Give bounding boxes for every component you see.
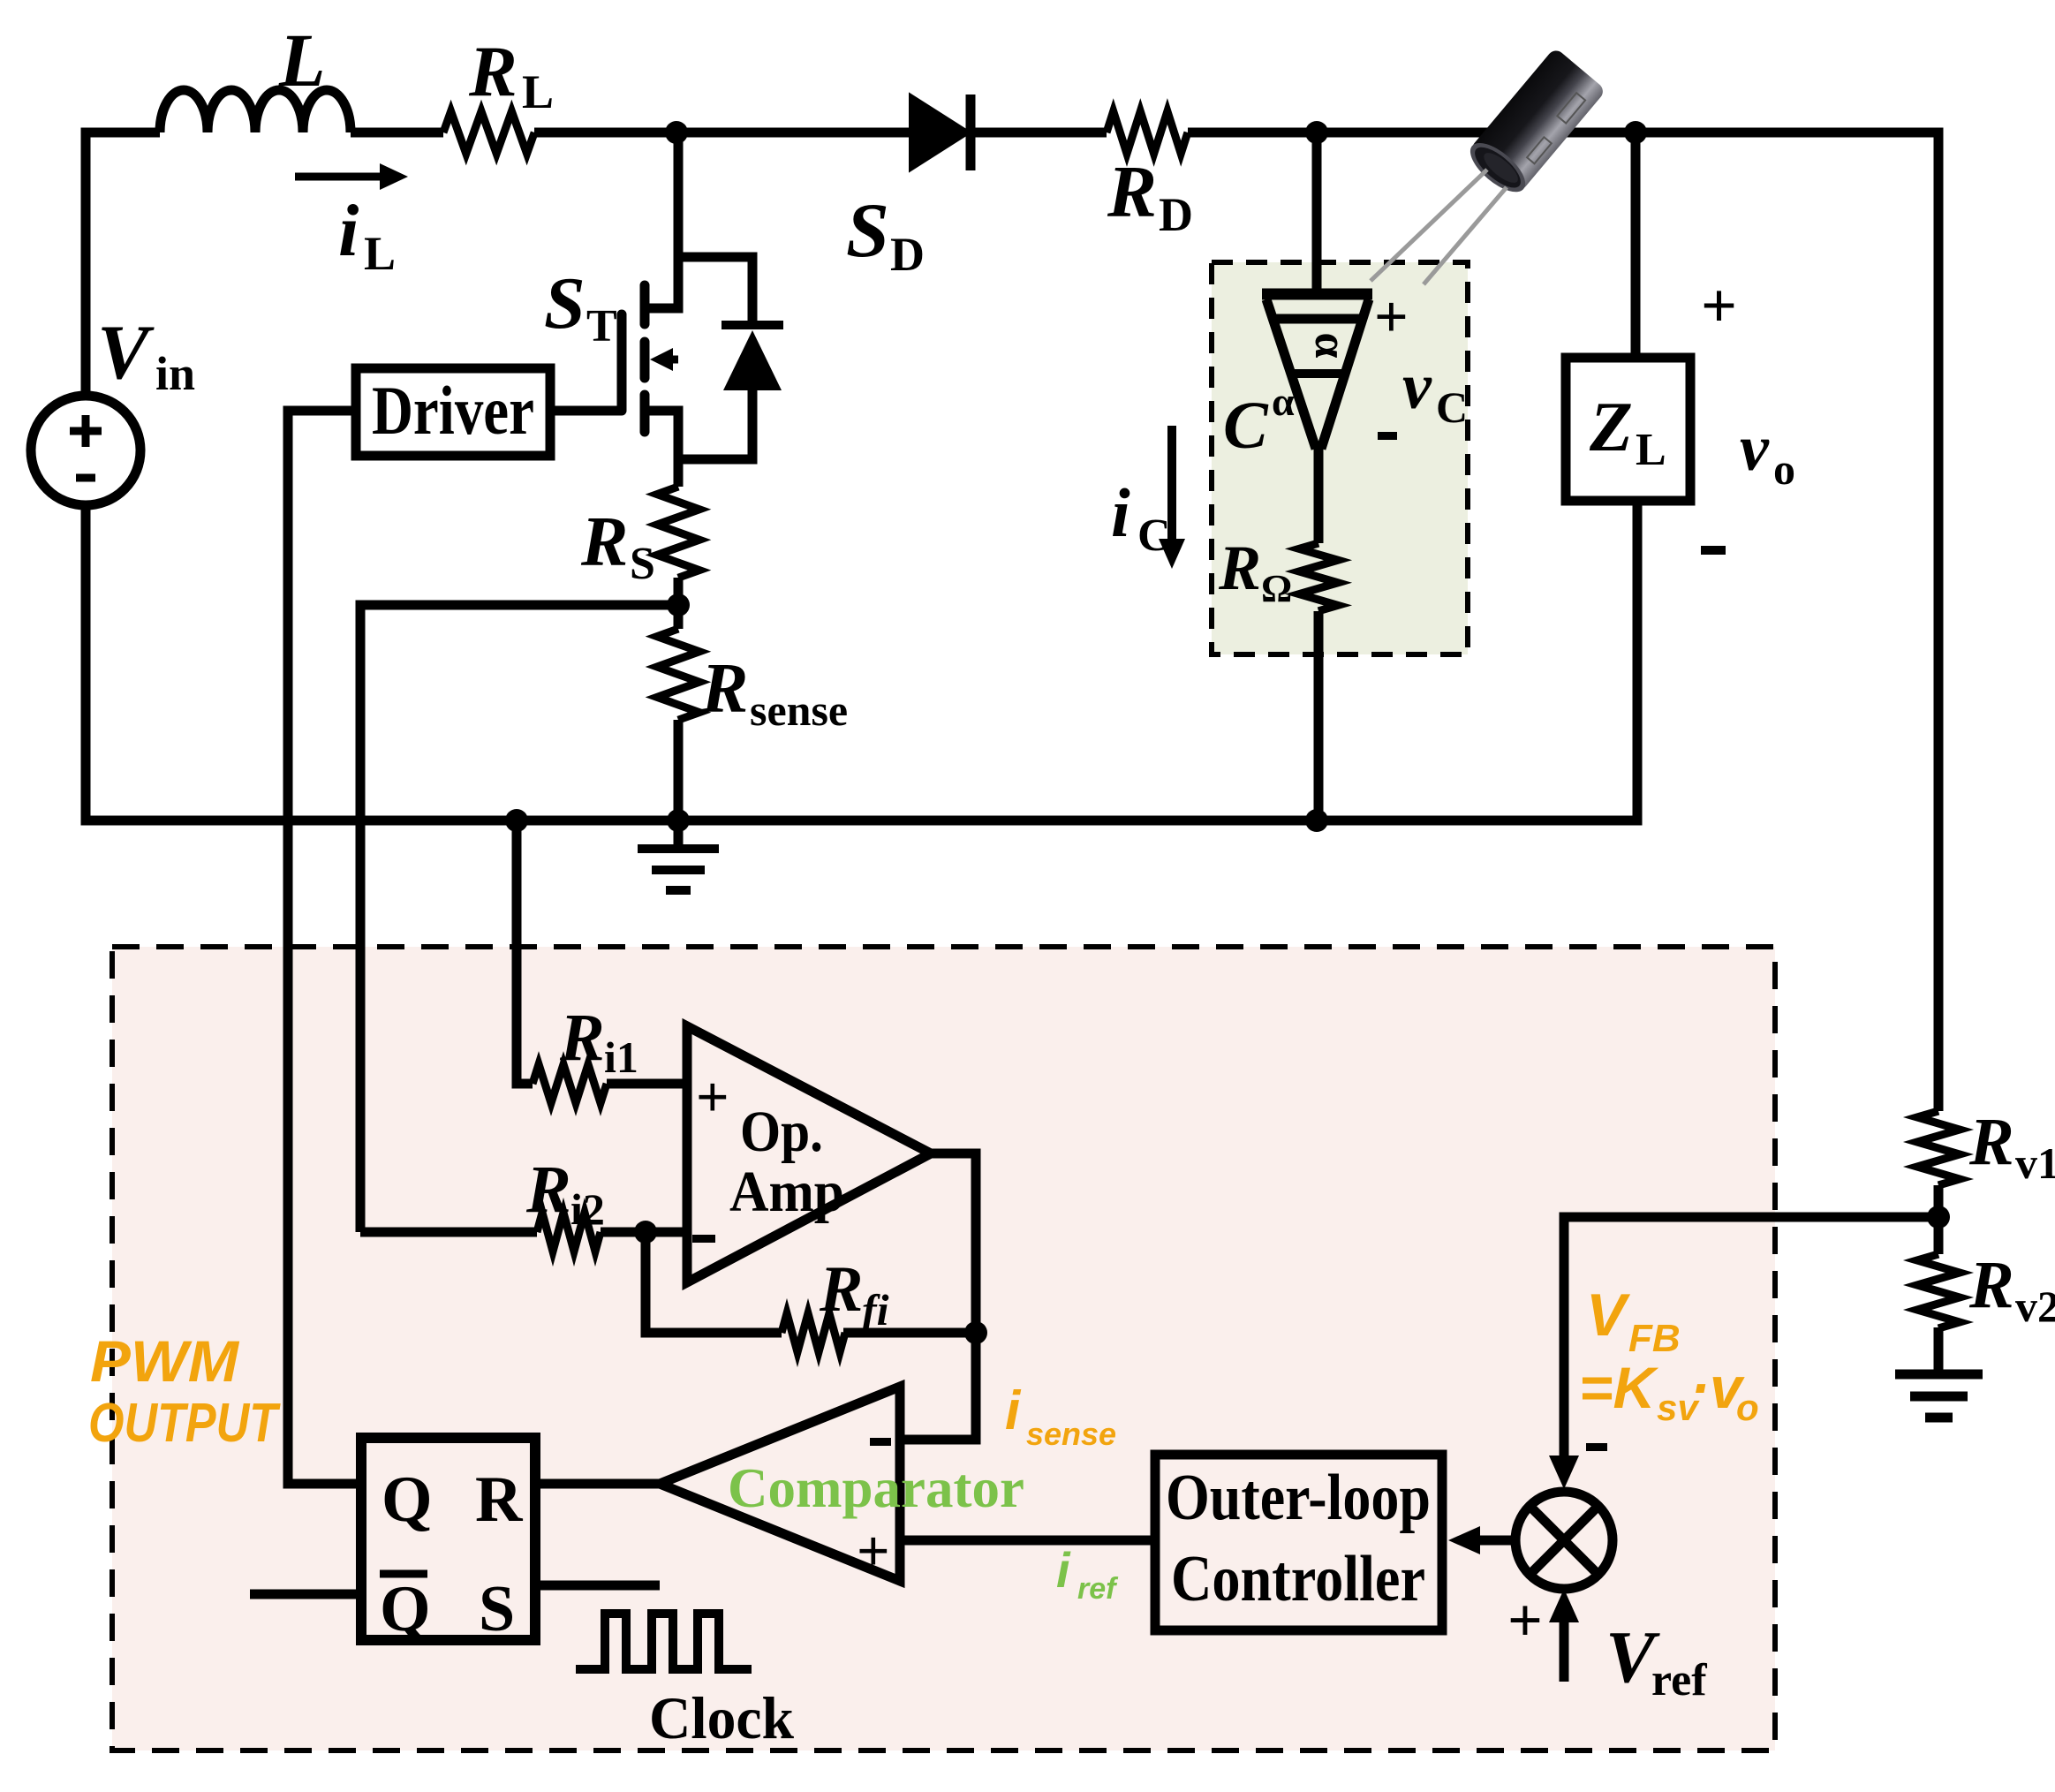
svg-text:R: R xyxy=(1218,533,1261,603)
svg-text:α: α xyxy=(1305,332,1356,358)
svg-text:v1: v1 xyxy=(2015,1138,2055,1188)
svg-text:+: + xyxy=(1701,270,1737,341)
Driver box xyxy=(356,368,550,456)
wire: Vin bottom to bottom rail xyxy=(86,501,1637,820)
label minus vC xyxy=(1378,432,1397,440)
svg-text:+: + xyxy=(857,1519,890,1584)
svg-text:T: T xyxy=(586,301,617,352)
label isense xyxy=(1005,1380,1116,1452)
comparator triangle xyxy=(660,1387,900,1581)
svg-text:Comparator: Comparator xyxy=(728,1456,1024,1519)
svg-text:V: V xyxy=(1586,1282,1631,1349)
wire: Ri1 from bottom rail into PWM box xyxy=(517,820,533,1084)
wire: op-amp output to Rfi node xyxy=(931,1153,976,1333)
svg-text:i1: i1 xyxy=(604,1032,638,1082)
label Calpha xyxy=(1223,379,1295,463)
wire: feedback loop down from Ri2 node to Rfi xyxy=(646,1232,782,1333)
resistor Rv1 xyxy=(1917,1111,1960,1185)
svg-text:sense: sense xyxy=(750,685,848,735)
label RL xyxy=(468,31,554,118)
label Rfi xyxy=(819,1253,889,1335)
node: Rsense ground junction on bottom rail xyxy=(667,809,690,832)
label PWM OUTPUT xyxy=(88,1328,281,1454)
label minus at summing xyxy=(1586,1443,1607,1451)
svg-text:Amp: Amp xyxy=(729,1160,844,1224)
summing junction xyxy=(1515,1492,1613,1589)
svg-text:v: v xyxy=(1740,412,1770,485)
fractional capacitor Ca symbol xyxy=(1262,294,1372,449)
node: C branch junction on bottom rail xyxy=(1305,809,1328,832)
label RS xyxy=(580,503,655,589)
node: RS-Rsense junction xyxy=(667,594,690,616)
label SD xyxy=(846,188,925,281)
resistor Rfi xyxy=(782,1313,845,1352)
label iL xyxy=(338,190,396,280)
label op-amp minus xyxy=(692,1235,715,1243)
svg-text:R: R xyxy=(700,650,748,728)
svg-text:Controller: Controller xyxy=(1171,1543,1425,1615)
svg-text:R: R xyxy=(580,503,628,581)
fractional capacitor dashed box xyxy=(1212,262,1468,654)
svg-text:L: L xyxy=(278,18,326,102)
svg-text:+: + xyxy=(1374,283,1409,350)
svg-text:R: R xyxy=(1968,1248,2014,1322)
label vC xyxy=(1402,351,1468,432)
label plus vo xyxy=(1701,270,1737,341)
node: C branch junction on top rail xyxy=(1305,121,1328,144)
wire: diode to RD xyxy=(971,128,1107,138)
label Comparator xyxy=(728,1456,1024,1519)
svg-text:+: + xyxy=(696,1065,729,1130)
SR latch box xyxy=(361,1438,535,1645)
wire: RL to diode SD xyxy=(534,128,910,138)
svg-text:α: α xyxy=(1272,379,1295,424)
Outer-loop Controller box xyxy=(1155,1455,1442,1630)
svg-text:Ω: Ω xyxy=(1261,567,1292,610)
wire: gate to driver xyxy=(550,406,622,416)
svg-text:Q: Q xyxy=(382,1463,433,1536)
svg-text:D: D xyxy=(1159,188,1193,241)
svg-text:R: R xyxy=(819,1253,863,1326)
svg-text:D: D xyxy=(890,228,925,281)
svg-text:S: S xyxy=(544,262,586,344)
label Rv2 xyxy=(1968,1248,2055,1331)
wire: Ri1 to op-amp plus input xyxy=(607,1079,687,1089)
label Vref xyxy=(1605,1616,1707,1705)
svg-text:Outer-loop: Outer-loop xyxy=(1166,1462,1431,1534)
arrow iL xyxy=(295,163,408,190)
ground under Rsense xyxy=(638,820,719,890)
ground under Rv2 xyxy=(1895,1327,1983,1418)
svg-text:L: L xyxy=(522,65,554,118)
clock waveform symbol xyxy=(576,1614,752,1669)
label VFB equation xyxy=(1579,1282,1759,1428)
resistor Ri2 xyxy=(537,1213,601,1251)
wire: sense tap to Ri2 drop xyxy=(360,605,678,1232)
svg-text:i: i xyxy=(338,190,359,272)
wire: fractional branch from top rail xyxy=(1312,132,1322,291)
svg-text:R: R xyxy=(468,31,518,111)
svg-text:V: V xyxy=(97,310,155,396)
svg-text:sense: sense xyxy=(1026,1416,1116,1452)
label comparator minus xyxy=(870,1438,891,1446)
svg-text:R: R xyxy=(1968,1105,2014,1179)
diode SD xyxy=(910,95,971,170)
label comparator plus xyxy=(857,1519,890,1584)
svg-text:FB: FB xyxy=(1628,1317,1681,1360)
label Ri2 xyxy=(525,1153,605,1234)
svg-text:Q: Q xyxy=(380,1573,431,1645)
wire: RS bottom to node and down to Rsense xyxy=(674,578,684,629)
wire: Ri2 to op-amp minus input xyxy=(601,1228,687,1237)
svg-text:R: R xyxy=(1107,151,1157,233)
resistor RS xyxy=(657,487,699,578)
wire: Rfi to output node xyxy=(843,1328,976,1338)
svg-text:L: L xyxy=(364,227,396,280)
wire: latch Qbar stub xyxy=(250,1590,361,1599)
wire: Ri2 drop corner to resistor xyxy=(360,1228,537,1237)
svg-text:=K: =K xyxy=(1579,1355,1659,1420)
wire: latch S input stub xyxy=(535,1581,660,1591)
node: ZL branch junction on top rail xyxy=(1624,121,1647,144)
label plus at summing xyxy=(1507,1587,1543,1655)
svg-text:o: o xyxy=(1736,1387,1759,1428)
wire: feedback VFB to summing junction xyxy=(1549,1217,1938,1489)
label ZL xyxy=(1589,389,1666,475)
body diode of ST xyxy=(678,257,783,459)
arrow summing junction to controller xyxy=(1448,1526,1513,1554)
svg-text:i: i xyxy=(1056,1542,1071,1598)
svg-text:R: R xyxy=(559,1001,605,1075)
wire: Rsense to bottom rail xyxy=(674,720,684,820)
resistor Rv2 xyxy=(1917,1254,1960,1328)
wire: controller to comparator plus input xyxy=(900,1536,1155,1546)
wire: inductor to RL xyxy=(351,128,443,138)
svg-text:+: + xyxy=(1507,1587,1543,1655)
label vo xyxy=(1740,412,1795,494)
node: feedback tap xyxy=(1927,1206,1950,1229)
comparator minus input wire from Rfi node xyxy=(900,1333,976,1440)
svg-text:C: C xyxy=(1436,382,1468,432)
label iC xyxy=(1111,474,1171,561)
wire: Ca apex to Romega xyxy=(1314,446,1324,543)
wire: left rail Vin top segment xyxy=(86,132,160,396)
svg-text:ref: ref xyxy=(1077,1572,1119,1606)
arrow iC xyxy=(1159,426,1185,569)
resistor RL xyxy=(443,111,534,154)
wire: RD to top-right corner and down to Rv1 xyxy=(1188,132,1938,1111)
label op-amp plus xyxy=(696,1065,729,1130)
Vin source circle xyxy=(31,396,140,505)
svg-text:Driver: Driver xyxy=(372,372,534,449)
svg-text:i: i xyxy=(1005,1380,1022,1441)
svg-text:in: in xyxy=(155,347,195,400)
wire: Romega to bottom rail xyxy=(1314,611,1324,820)
svg-text:v2: v2 xyxy=(2015,1282,2055,1331)
op-amp U1 xyxy=(687,1026,931,1282)
node: drain junction on top rail xyxy=(665,121,688,144)
label L xyxy=(278,18,326,102)
label ST xyxy=(544,262,617,352)
node: Ri1 tap on bottom rail xyxy=(505,809,528,832)
label iref xyxy=(1056,1542,1119,1606)
node: Rfi output junction xyxy=(964,1321,987,1344)
svg-text:ref: ref xyxy=(1651,1655,1707,1705)
svg-text:v: v xyxy=(1402,351,1432,423)
label RD xyxy=(1107,151,1193,241)
svg-text:o: o xyxy=(1773,444,1795,494)
wire: driver input down into PWM box to latch Q xyxy=(288,411,361,1484)
resistor Ri1 xyxy=(533,1064,607,1103)
resistor Rsense xyxy=(657,629,699,720)
svg-text:R: R xyxy=(475,1463,524,1536)
PWM OUTPUT control dashed box xyxy=(112,947,1775,1750)
svg-text:C: C xyxy=(1223,389,1269,463)
svg-text:S: S xyxy=(630,539,655,589)
label Ri1 xyxy=(559,1001,638,1082)
wire: Rv1 to Rv2 xyxy=(1934,1185,1944,1254)
label Rv1 xyxy=(1968,1105,2055,1188)
transistor ST mosfet xyxy=(622,132,678,487)
label plus vC xyxy=(1374,283,1409,350)
label Vin xyxy=(97,310,195,400)
inductor L xyxy=(160,90,351,132)
svg-text:Z: Z xyxy=(1589,389,1633,466)
svg-text:Op.: Op. xyxy=(740,1100,823,1164)
svg-text:OUTPUT: OUTPUT xyxy=(88,1393,281,1454)
svg-text:i: i xyxy=(1111,474,1130,551)
svg-text:fi: fi xyxy=(862,1285,889,1335)
svg-text:i2: i2 xyxy=(570,1184,605,1234)
label Op Amp xyxy=(729,1100,844,1224)
svg-text:PWM: PWM xyxy=(90,1328,240,1394)
label Romega xyxy=(1218,533,1292,610)
resistor Romega xyxy=(1299,543,1338,611)
svg-text:C: C xyxy=(1137,510,1171,561)
node: Ri2 feedback junction xyxy=(634,1221,657,1244)
resistor RD xyxy=(1107,111,1188,154)
svg-text:Clock: Clock xyxy=(649,1684,794,1751)
svg-text:S: S xyxy=(479,1573,515,1645)
wire: comparator output to latch R xyxy=(535,1479,660,1489)
load ZL box xyxy=(1566,132,1690,501)
label minus vo xyxy=(1701,546,1726,555)
label Rsense xyxy=(700,650,848,735)
svg-text:S: S xyxy=(846,188,889,274)
svg-text:L: L xyxy=(1636,425,1666,475)
label Clock xyxy=(649,1684,794,1751)
svg-text:R: R xyxy=(525,1153,571,1227)
arrow Vref into summing junction xyxy=(1549,1589,1579,1682)
electrolytic capacitor photo xyxy=(1371,47,1606,284)
